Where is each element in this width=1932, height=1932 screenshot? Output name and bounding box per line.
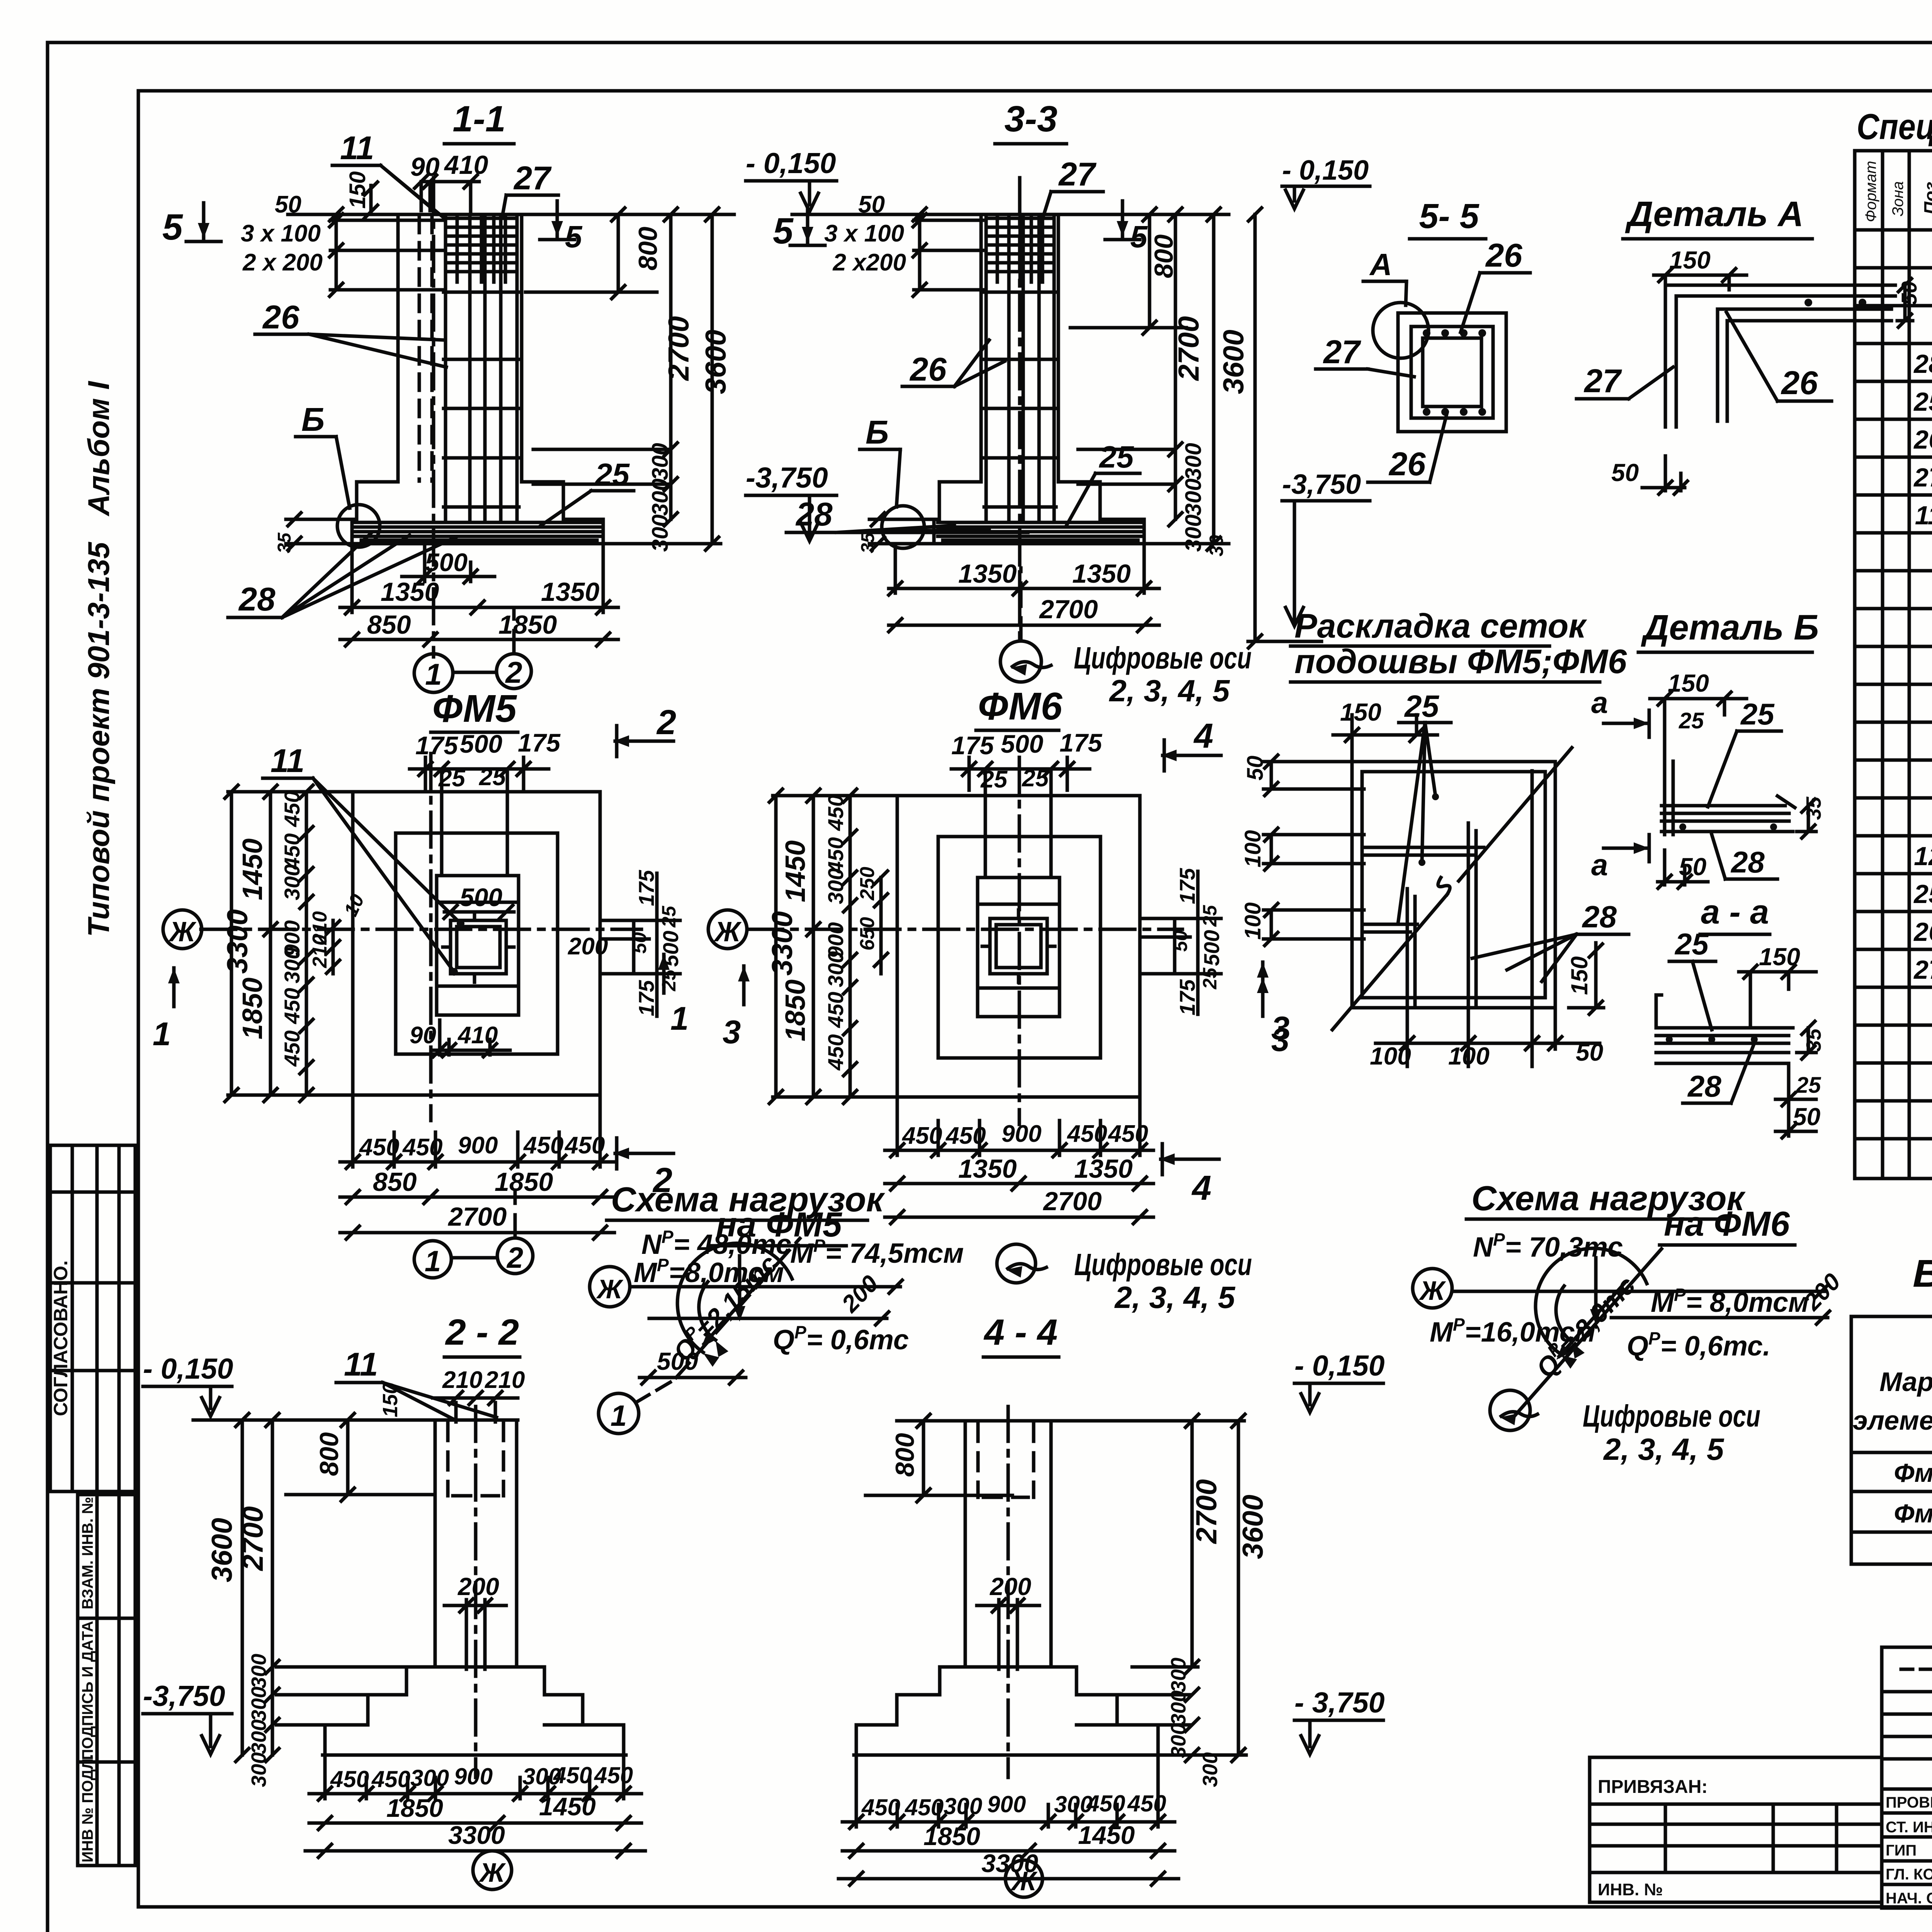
svg-text:800: 800 <box>890 1433 920 1477</box>
svg-text:а: а <box>1591 848 1608 882</box>
svg-text:4 - 4: 4 - 4 <box>983 1312 1058 1353</box>
svg-text:1350: 1350 <box>541 577 599 607</box>
plan FM5 inner step <box>437 876 519 1015</box>
svg-text:Цифровые оси: Цифровые оси <box>1583 1399 1760 1433</box>
svg-text:26: 26 <box>1781 365 1818 401</box>
svg-text:25: 25 <box>438 765 466 792</box>
svg-text:26: 26 <box>262 299 299 336</box>
svg-text:QР= 0,6тс.: QР= 0,6тс. <box>1627 1328 1770 1362</box>
svg-text:ПРОВЕР.: ПРОВЕР. <box>1886 1794 1932 1811</box>
detail A corner mesh <box>1665 285 1895 427</box>
svg-text:850: 850 <box>367 610 411 639</box>
spec table frame <box>1855 151 1932 1179</box>
svg-text:450: 450 <box>823 1034 848 1071</box>
svg-text:3600: 3600 <box>1217 330 1250 394</box>
5-5 rebar dots <box>1423 329 1486 416</box>
svg-text:2: 2 <box>506 1242 523 1274</box>
svg-text:450: 450 <box>280 791 304 827</box>
svg-text:450: 450 <box>823 992 848 1028</box>
column cage vertical bars 3-3 <box>986 216 1054 520</box>
svg-text:3300: 3300 <box>448 1821 505 1849</box>
detail circle B 3-3 <box>882 506 924 548</box>
svg-text:28: 28 <box>1730 845 1765 879</box>
svg-text:Альбом I: Альбом I <box>82 381 116 517</box>
svg-text:1850: 1850 <box>386 1794 443 1822</box>
svg-text:11: 11 <box>340 130 374 167</box>
svg-text:1450: 1450 <box>1078 1821 1135 1849</box>
svg-text:ВЗАМ. ИНВ. №: ВЗАМ. ИНВ. № <box>79 1497 96 1609</box>
svg-text:100: 100 <box>1240 830 1265 867</box>
svg-text:- 0,150: - 0,150 <box>1282 155 1369 186</box>
svg-text:25: 25 <box>1674 927 1709 961</box>
svg-text:подошвы ФМ5;ФМ6: подошвы ФМ5;ФМ6 <box>1294 642 1627 680</box>
svg-text:ПОДПИСЬ И ДАТА: ПОДПИСЬ И ДАТА <box>79 1621 96 1760</box>
svg-text:25: 25 <box>1796 1073 1821 1098</box>
axis circle below 3-3 <box>1000 641 1041 682</box>
svg-text:300: 300 <box>1167 1723 1190 1758</box>
svg-text:300: 300 <box>247 1687 270 1721</box>
scheme FM5 moment arcs <box>677 1243 792 1352</box>
tie-in block frame <box>1590 1757 1882 1902</box>
svg-text:1: 1 <box>153 1016 171 1053</box>
plan FM6 outer slab <box>897 796 1140 1097</box>
axis dash-dot line 3-3 <box>1018 178 1022 641</box>
svg-text:300: 300 <box>280 947 304 983</box>
svg-text:3600: 3600 <box>699 330 732 394</box>
column ties 3-3 <box>984 292 1056 507</box>
svg-text:Фм5: Фм5 <box>1894 1458 1932 1488</box>
dim 2700 vertical 1-1 <box>669 214 673 519</box>
svg-text:2700: 2700 <box>236 1506 269 1571</box>
left dim 3300 FM6 <box>773 796 897 1097</box>
svg-text:А: А <box>1369 247 1392 282</box>
svg-text:-3,750: -3,750 <box>746 461 828 494</box>
section mark 3 left FM6 <box>738 966 750 1005</box>
svg-text:800: 800 <box>633 226 663 270</box>
svg-text:2700: 2700 <box>447 1202 507 1231</box>
svg-text:175: 175 <box>1175 868 1199 904</box>
svg-text:5- 5: 5- 5 <box>1419 197 1480 236</box>
svg-text:2 - 2: 2 - 2 <box>445 1312 519 1353</box>
svg-text:-3,750: -3,750 <box>143 1680 225 1712</box>
svg-text:300: 300 <box>247 1752 270 1787</box>
svg-text:2700: 2700 <box>1172 316 1205 381</box>
svg-text:50: 50 <box>858 191 885 218</box>
svg-text:26: 26 <box>1913 425 1932 454</box>
svg-text:300: 300 <box>1181 443 1206 480</box>
svg-text:26: 26 <box>1485 237 1522 274</box>
svg-text:27: 27 <box>1583 363 1622 400</box>
ground line 4-4 <box>897 1419 1244 1423</box>
steel table header horizontals <box>1851 1354 1932 1452</box>
svg-text:1450: 1450 <box>237 838 268 900</box>
svg-text:27: 27 <box>513 160 552 197</box>
svg-text:300: 300 <box>1167 1658 1190 1692</box>
right dims cluster FM5 <box>600 873 680 1016</box>
detail circle B 1-1 <box>337 505 380 547</box>
svg-text:Деталь Б: Деталь Б <box>1641 608 1819 647</box>
svg-text:2, 3, 4, 5: 2, 3, 4, 5 <box>1114 1280 1236 1315</box>
svg-text:27: 27 <box>1323 334 1361 371</box>
svg-text:150: 150 <box>1668 669 1709 697</box>
svg-text:а - а: а - а <box>1701 893 1769 931</box>
svg-text:Ж: Ж <box>1419 1276 1447 1306</box>
section mark 4 bottom right FM6 <box>1159 1144 1219 1175</box>
svg-text:450: 450 <box>861 1794 900 1820</box>
right dims cluster FM6 <box>1140 871 1221 1014</box>
left dims 1450 1850 FM5 <box>269 792 272 1095</box>
column mesh block top 1-1 <box>446 216 517 282</box>
svg-text:2 х200: 2 х200 <box>832 249 906 276</box>
svg-text:500: 500 <box>460 883 502 912</box>
svg-text:50: 50 <box>1170 930 1191 952</box>
svg-text:ГЛ. КОНС: ГЛ. КОНС <box>1886 1866 1932 1883</box>
anchor pocket dashed 4-4 <box>978 1423 1034 1497</box>
scheme FM5 Qx arrow <box>704 1271 769 1344</box>
svg-text:ГИП: ГИП <box>1886 1842 1917 1859</box>
dim 3600 vertical 3-3 <box>1070 214 1229 544</box>
svg-text:28: 28 <box>795 496 833 533</box>
svg-text:25: 25 <box>1740 697 1775 731</box>
svg-text:175: 175 <box>634 980 658 1016</box>
svg-text:450: 450 <box>280 988 304 1024</box>
svg-text:ФМ6: ФМ6 <box>978 685 1063 728</box>
svg-text:- 3,750: - 3,750 <box>1294 1686 1385 1719</box>
approval box grid <box>50 1145 135 1492</box>
svg-text:450: 450 <box>553 1762 592 1788</box>
svg-text:500: 500 <box>1199 930 1224 966</box>
plan FM6 middle step <box>938 837 1100 1058</box>
detail B wall and slab <box>1665 755 1673 835</box>
svg-text:90: 90 <box>410 1022 436 1049</box>
svg-text:ИНВ № ПОДЛ.: ИНВ № ПОДЛ. <box>79 1754 96 1862</box>
svg-text:1450: 1450 <box>539 1792 596 1821</box>
axis circles 1 and 2 below 1-1 <box>414 654 453 692</box>
svg-text:450: 450 <box>823 795 848 831</box>
svg-text:1: 1 <box>425 657 442 691</box>
svg-text:450: 450 <box>280 1031 304 1067</box>
svg-text:28: 28 <box>1687 1069 1721 1103</box>
svg-text:3300: 3300 <box>221 909 253 974</box>
plan FM5 axes dash-dot <box>201 753 641 1121</box>
ground line / top datum 1-1 <box>288 213 734 216</box>
axis circle below FM6 <box>997 1244 1036 1283</box>
dim 3600 2-2 <box>241 1420 244 1755</box>
svg-text:3: 3 <box>723 1014 741 1051</box>
axis circles 1 2 below FM5 <box>414 1241 451 1278</box>
svg-text:Типовой проект 901-3-135: Типовой проект 901-3-135 <box>82 541 116 937</box>
svg-text:Спецификация элементов монолит: Спецификация элементов монолитной констр… <box>1857 106 1932 147</box>
svg-text:25: 25 <box>479 764 506 791</box>
dim 800 4-4 <box>866 1421 1012 1495</box>
dim 2700 vertical 3-3 <box>1174 214 1177 519</box>
svg-text:175: 175 <box>1060 728 1102 757</box>
scheme FM5 axis circle 1 <box>599 1393 639 1434</box>
mesh bars horizontal <box>1364 772 1542 924</box>
5-5 outer square <box>1398 313 1506 432</box>
svg-text:150: 150 <box>1566 956 1592 995</box>
svg-text:175: 175 <box>634 870 658 906</box>
svg-text:1-1: 1-1 <box>452 99 505 139</box>
left dim chain 450s FM5 <box>305 792 308 1095</box>
svg-text:3300: 3300 <box>766 911 798 976</box>
svg-text:175: 175 <box>518 728 561 757</box>
svg-text:210: 210 <box>309 934 331 968</box>
svg-text:28: 28 <box>1913 349 1932 379</box>
axis dash-dot line 1-1 <box>432 178 435 657</box>
svg-text:3: 3 <box>1271 1022 1289 1058</box>
svg-text:650: 650 <box>856 917 879 951</box>
svg-text:500: 500 <box>1001 730 1043 758</box>
ground line 3-3 <box>792 213 1229 216</box>
svg-text:ИНВ. №: ИНВ. № <box>1598 1880 1663 1899</box>
dim 800 3-3 <box>1070 214 1186 328</box>
svg-text:50: 50 <box>1611 459 1639 486</box>
spec table header row <box>1855 228 1932 232</box>
200 dim 4-4 <box>999 1600 1017 1669</box>
svg-text:Ж: Ж <box>1010 1866 1038 1896</box>
mesh layout diagonal <box>1332 748 1572 1030</box>
svg-text:25: 25 <box>658 905 680 928</box>
svg-text:на ФМ6: на ФМ6 <box>1664 1205 1790 1243</box>
svg-text:1350: 1350 <box>1074 1154 1133 1184</box>
svg-text:СТ. ИНЖ.: СТ. ИНЖ. <box>1886 1819 1932 1836</box>
inner dims 250 650 FM6 <box>879 878 883 974</box>
svg-text:900: 900 <box>987 1791 1026 1817</box>
svg-text:2700: 2700 <box>662 316 695 381</box>
svg-text:ПРИВЯЗАН:: ПРИВЯЗАН: <box>1598 1777 1708 1797</box>
dim 800 2-2 <box>286 1420 433 1495</box>
svg-text:850: 850 <box>373 1167 417 1197</box>
svg-text:1850: 1850 <box>237 978 268 1039</box>
svg-text:410: 410 <box>457 1022 498 1049</box>
svg-text:3600: 3600 <box>1236 1495 1269 1559</box>
svg-text:150: 150 <box>1669 246 1711 274</box>
center axis dash-dot 4-4 <box>1007 1406 1010 1777</box>
dim 800 1-1 <box>526 214 657 292</box>
svg-text:450: 450 <box>330 1766 369 1792</box>
steps and slab 2-2 <box>325 1667 624 1755</box>
svg-text:25: 25 <box>1022 765 1049 792</box>
svg-text:450: 450 <box>1127 1791 1166 1816</box>
dim 3600 4-4 <box>1163 1421 1246 1755</box>
scheme FM6 Qx arrow <box>1559 1283 1625 1356</box>
steel table frame <box>1851 1316 1932 1564</box>
svg-text:25: 25 <box>658 969 680 992</box>
svg-text:200: 200 <box>568 933 608 960</box>
svg-text:2, 3, 4, 5: 2, 3, 4, 5 <box>1109 673 1230 708</box>
svg-text:450: 450 <box>901 1122 942 1149</box>
column mesh block top 3-3 <box>986 216 1054 282</box>
svg-text:- 0,150: - 0,150 <box>1294 1349 1385 1382</box>
footing mesh lines 3-3 <box>938 522 1142 540</box>
svg-text:5: 5 <box>565 219 583 254</box>
svg-text:Б: Б <box>301 401 325 438</box>
axis circle Zh below 2-2 <box>473 1851 512 1889</box>
anchor dashed lines 1-1 <box>419 216 432 481</box>
svg-text:11: 11 <box>270 743 304 779</box>
scheme FM6 moment arcs <box>1536 1248 1647 1354</box>
ground line 2-2 <box>193 1418 518 1422</box>
svg-text:Деталь А: Деталь А <box>1625 194 1804 234</box>
section mark 1 left FM5 <box>168 968 180 1007</box>
svg-text:Ж: Ж <box>479 1857 507 1888</box>
svg-text:25: 25 <box>1199 905 1221 927</box>
svg-text:5: 5 <box>1130 219 1148 254</box>
svg-text:СОГЛАСОВАНО.: СОГЛАСОВАНО. <box>50 1260 71 1416</box>
mesh bars vertical <box>1407 771 1532 1005</box>
svg-text:Цифровые оси: Цифровые оси <box>1074 641 1252 675</box>
dims 300x4 4-4 <box>1185 1688 1199 1701</box>
title block left rows <box>1882 1669 1932 1789</box>
svg-text:Поз.: Поз. <box>1920 177 1932 214</box>
svg-text:Зона: Зона <box>1889 181 1906 216</box>
section mark 2 bottom right FM5 <box>614 1138 673 1169</box>
svg-text:300: 300 <box>648 514 673 552</box>
column and footing outline 1-1 <box>352 214 603 544</box>
svg-text:1350: 1350 <box>1072 559 1131 588</box>
plan FM6 column section <box>990 918 1047 974</box>
svg-text:450: 450 <box>594 1762 633 1788</box>
dims 300x4 2-2 <box>266 1688 279 1701</box>
svg-text:175: 175 <box>951 731 994 760</box>
dim 2700 2-2 <box>271 1420 274 1755</box>
svg-text:ФМ5: ФМ5 <box>432 687 517 730</box>
column 2-2 <box>435 1420 517 1667</box>
svg-text:2: 2 <box>656 703 676 742</box>
200 dim lines 2-2 <box>466 1600 485 1669</box>
svg-text:900: 900 <box>1002 1121 1041 1147</box>
svg-text:4: 4 <box>1191 1169 1211 1207</box>
svg-text:50: 50 <box>1793 1103 1820 1131</box>
axis circle Zh scheme FM5 <box>590 1267 630 1307</box>
svg-text:27: 27 <box>1913 463 1932 492</box>
svg-text:900: 900 <box>458 1132 498 1159</box>
svg-text:28: 28 <box>1582 900 1617 934</box>
svg-text:Раскладка сеток: Раскладка сеток <box>1294 607 1587 645</box>
svg-text:26: 26 <box>1388 446 1426 483</box>
scheme FM6 diagonal axis <box>1515 1249 1662 1416</box>
column cage vertical bars 1-1 <box>446 216 517 520</box>
svg-text:1350: 1350 <box>381 577 439 607</box>
svg-text:25: 25 <box>1679 708 1704 733</box>
plan FM5 column section <box>451 920 506 974</box>
center axis dash-dot 2-2 <box>474 1406 478 1777</box>
svg-text:1: 1 <box>425 1245 441 1278</box>
svg-text:500: 500 <box>460 730 502 758</box>
svg-text:1: 1 <box>670 1000 689 1037</box>
svg-text:26: 26 <box>1913 917 1932 947</box>
svg-text:300: 300 <box>823 868 848 904</box>
svg-text:410: 410 <box>444 150 488 180</box>
svg-text:3 х 100: 3 х 100 <box>824 220 904 247</box>
svg-text:250: 250 <box>856 867 879 901</box>
svg-text:4: 4 <box>1193 717 1213 755</box>
dim 2700 4-4 <box>1132 1421 1198 1667</box>
svg-text:450: 450 <box>1086 1791 1125 1816</box>
section mark 5 right 3-3 <box>1105 201 1140 240</box>
title block frame <box>1882 1647 1932 1908</box>
section mark 2 top right FM5 <box>614 726 673 757</box>
svg-text:НАЧ. ОТД.: НАЧ. ОТД. <box>1886 1890 1932 1907</box>
svg-text:28: 28 <box>238 581 276 618</box>
svg-text:26: 26 <box>909 351 947 388</box>
5-5 detail circle A <box>1373 303 1429 358</box>
svg-text:175: 175 <box>1175 979 1199 1015</box>
svg-text:50: 50 <box>629 932 650 954</box>
elevation column left of 5-5 <box>1248 214 1321 641</box>
svg-text:11: 11 <box>1915 501 1932 530</box>
svg-text:300: 300 <box>944 1793 982 1819</box>
scheme FM5 axis lines <box>630 1285 900 1289</box>
scheme FM6 N force arrow <box>1594 1258 1598 1317</box>
svg-text:25: 25 <box>1913 387 1932 417</box>
svg-text:300: 300 <box>247 1654 270 1689</box>
spec table row lines <box>1855 268 1932 1139</box>
svg-text:элемента: элемента <box>1853 1405 1932 1435</box>
svg-text:300: 300 <box>1181 478 1206 516</box>
svg-text:450: 450 <box>371 1766 410 1792</box>
mesh layout square <box>1352 762 1555 1008</box>
svg-text:500: 500 <box>658 931 683 967</box>
svg-text:12: 12 <box>1914 842 1932 871</box>
tie-in block grid <box>1590 1804 1882 1872</box>
svg-text:Ж: Ж <box>168 917 197 947</box>
spec table column lines <box>1883 151 1932 1179</box>
plan FM5 outer slab <box>353 792 600 1095</box>
dim 3600 vertical 1-1 <box>526 214 721 544</box>
svg-text:1350: 1350 <box>958 1154 1017 1184</box>
plan FM5 middle step <box>396 833 558 1054</box>
svg-text:300: 300 <box>823 951 848 987</box>
svg-text:2700: 2700 <box>1043 1187 1102 1216</box>
anchor pocket dashed 2-2 <box>448 1423 503 1496</box>
svg-text:25: 25 <box>1913 879 1932 909</box>
svg-text:300: 300 <box>280 864 304 900</box>
svg-text:Выборка стали на один элем: Выборка стали на один элемент, кГ <box>1913 1252 1932 1295</box>
left dims 1450 1850 FM6 <box>812 796 815 1097</box>
svg-text:50: 50 <box>275 191 301 218</box>
axis circle Zh scheme FM6 <box>1413 1269 1452 1308</box>
svg-text:Фм6: Фм6 <box>1894 1499 1932 1528</box>
footing mesh lines 1-1 <box>355 522 601 540</box>
svg-text:2, 3, 4, 5: 2, 3, 4, 5 <box>1603 1432 1725 1466</box>
svg-text:27: 27 <box>1058 156 1097 193</box>
svg-text:- 0,150: - 0,150 <box>746 147 836 179</box>
column ties 1-1 <box>444 292 519 507</box>
section mark 1 right FM5 <box>658 954 670 993</box>
section mark 5 right 1-1 <box>540 201 575 240</box>
svg-text:25: 25 <box>1099 440 1134 474</box>
svg-text:800: 800 <box>315 1432 344 1476</box>
svg-text:1: 1 <box>611 1400 627 1432</box>
plan FM6 axes dash-dot <box>748 757 1182 1124</box>
svg-text:3-3: 3-3 <box>1004 99 1057 139</box>
svg-text:200: 200 <box>990 1573 1031 1600</box>
svg-text:30: 30 <box>1206 535 1227 556</box>
svg-text:Ж: Ж <box>713 917 742 947</box>
svg-text:11: 11 <box>344 1346 378 1383</box>
svg-text:2700: 2700 <box>1190 1479 1223 1544</box>
svg-text:1850: 1850 <box>495 1167 553 1197</box>
svg-text:1850: 1850 <box>780 980 811 1041</box>
section mark 4 top right FM6 <box>1161 740 1221 771</box>
svg-text:175: 175 <box>415 731 458 760</box>
column 4-4 <box>965 1421 1051 1667</box>
svg-text:а: а <box>1591 685 1608 719</box>
steel table data row lines <box>1851 1492 1932 1532</box>
svg-text:2: 2 <box>505 655 522 689</box>
